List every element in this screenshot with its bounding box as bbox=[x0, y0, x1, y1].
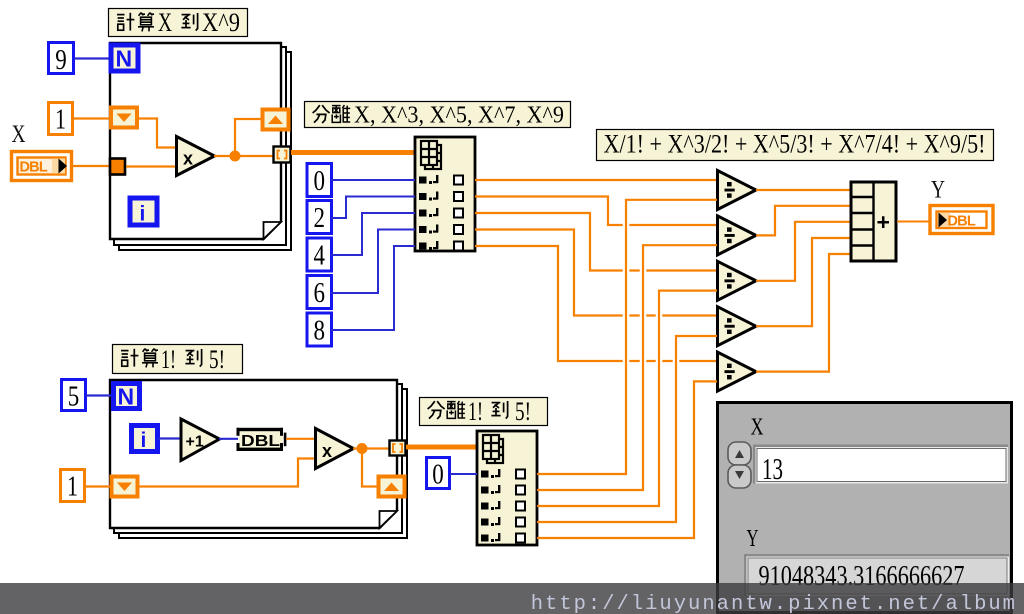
svg-text:0: 0 bbox=[314, 165, 326, 197]
wire i2 to +1 bbox=[158, 437, 181, 439]
svg-text:2: 2 bbox=[314, 202, 326, 234]
wire 9 to N bbox=[74, 57, 110, 59]
wire f-out1 to divide1 lower input bbox=[537, 200, 717, 474]
X numeric control increment buttons bbox=[728, 442, 751, 488]
X numeric control field bbox=[753, 445, 1008, 487]
watermark band bbox=[0, 583, 1024, 614]
svg-text:DBL: DBL bbox=[948, 214, 976, 230]
constant 0 (loop2) bbox=[427, 458, 450, 491]
wire junction up to right shift register bbox=[235, 119, 261, 156]
svg-text:X: X bbox=[158, 8, 172, 37]
wire f-out3 to divide3 lower input bbox=[537, 291, 717, 506]
wire D3 out to adder in3 bbox=[756, 222, 850, 281]
svg-text:9: 9 bbox=[55, 44, 67, 76]
index array 2 body bbox=[477, 431, 537, 545]
wire 1 to shift register bbox=[73, 117, 109, 119]
wire multiply2 out to junction2 bbox=[353, 447, 389, 449]
wire D2 out to adder in2 bbox=[756, 206, 850, 236]
thick array wire to index array 2 bbox=[406, 445, 477, 450]
wire junction2 down to right shift register bbox=[362, 449, 377, 487]
constant 2 bbox=[307, 201, 332, 235]
svg-text:8: 8 bbox=[314, 315, 326, 347]
svg-text:X: X bbox=[12, 121, 26, 148]
svg-text:13: 13 bbox=[762, 451, 783, 486]
shift register left (down arrow) bbox=[111, 108, 137, 128]
svg-text:X: X bbox=[751, 415, 764, 441]
divide node D3 bbox=[718, 261, 757, 300]
constant 0 bbox=[307, 164, 332, 198]
wire 5 to N bbox=[86, 394, 112, 396]
wire out3 to divide3 bbox=[475, 213, 717, 271]
svg-text:1: 1 bbox=[55, 104, 66, 136]
wire out5 to divide5 bbox=[475, 246, 717, 361]
svg-text:N: N bbox=[116, 46, 133, 72]
To-DBL conversion node bbox=[237, 428, 287, 451]
shift register right (up arrow) bbox=[263, 110, 289, 130]
thick array wire to index array 1 bbox=[291, 150, 415, 155]
wire adder to Y indicator bbox=[897, 221, 930, 223]
Y numeric indicator field bbox=[744, 554, 1009, 596]
wire X to tunnel bbox=[72, 165, 109, 167]
Y DBL indicator terminal bbox=[930, 206, 993, 234]
svg-text:http://liuyunantw.pixnet.net/a: http://liuyunantw.pixnet.net/album bbox=[531, 593, 1017, 614]
svg-text:5!: 5! bbox=[515, 397, 531, 426]
wire out2 to divide2 bbox=[475, 197, 717, 226]
svg-text:X/1! + X^3/2! + X^5/3! + X^7/4: X/1! + X^3/2! + X^5/3! + X^7/4! + X^9/5! bbox=[604, 130, 986, 159]
for-loop 2 frame (stacked, with folded corner) bbox=[110, 380, 407, 538]
constant 1 bbox=[49, 103, 73, 136]
svg-text:x: x bbox=[322, 441, 332, 461]
svg-text:0: 0 bbox=[432, 459, 444, 491]
divide node D2 bbox=[718, 216, 757, 255]
wire D4 out to adder in4 bbox=[756, 238, 850, 326]
wire out4 to divide4 bbox=[475, 230, 717, 316]
svg-text:1!: 1! bbox=[468, 397, 483, 426]
iteration terminal i2 bbox=[132, 426, 158, 453]
svg-text:6: 6 bbox=[314, 277, 326, 309]
tunnel (orange square) on loop edge bbox=[110, 159, 125, 175]
constant 6 bbox=[307, 276, 332, 310]
label: 計算X 到X^9 bbox=[109, 8, 248, 37]
array tunnel [] on loop2 right edge bbox=[390, 441, 406, 456]
loop count terminal N2 bbox=[114, 384, 140, 410]
svg-text:i: i bbox=[140, 203, 146, 226]
wire 0 to index 1 bbox=[331, 179, 415, 181]
wire 2 to index 2 bbox=[331, 197, 415, 219]
constant 1 (loop2) bbox=[61, 470, 85, 503]
wire shift register to multiply top input bbox=[137, 119, 176, 148]
svg-text:Y: Y bbox=[747, 526, 759, 552]
svg-text:x: x bbox=[183, 149, 193, 169]
svg-text:Y: Y bbox=[931, 177, 945, 204]
wire f-out5 to divide5 lower input bbox=[537, 381, 717, 538]
divide node D1 bbox=[718, 171, 757, 210]
2D array glyph 2 bbox=[483, 435, 503, 463]
svg-text:DBL: DBL bbox=[20, 160, 48, 176]
multiply node x bbox=[177, 137, 215, 176]
front panel window bbox=[718, 403, 1012, 613]
wire multiply output to junction bbox=[214, 155, 273, 157]
svg-text:4: 4 bbox=[314, 240, 326, 272]
X DBL control terminal bbox=[12, 152, 72, 181]
wire 0 to index array 2 bbox=[450, 473, 477, 475]
constant 8 bbox=[307, 313, 332, 347]
svg-text:+1: +1 bbox=[186, 434, 204, 451]
wire D1 out to adder in1 bbox=[756, 189, 850, 191]
svg-text:1: 1 bbox=[67, 471, 78, 503]
iteration terminal i bbox=[130, 198, 157, 226]
loop count terminal N bbox=[111, 45, 138, 72]
divide node D5 bbox=[718, 352, 757, 391]
shift register left (down arrow) loop2 bbox=[112, 477, 138, 497]
label: 計算1! 到 5! bbox=[113, 345, 243, 375]
svg-text:i: i bbox=[141, 429, 147, 452]
svg-text:5: 5 bbox=[68, 381, 80, 413]
wire shift register to multiply2 bottom input bbox=[138, 459, 315, 487]
constant 5 bbox=[62, 380, 86, 413]
array tunnel [] on loop right edge bbox=[274, 147, 291, 163]
svg-text:5!: 5! bbox=[209, 345, 225, 374]
svg-text:DBL: DBL bbox=[241, 433, 280, 450]
index inputs and element outputs 2 bbox=[481, 469, 525, 543]
wire 4 to index 3 bbox=[331, 213, 415, 255]
wire out1 to divide1 bbox=[475, 179, 717, 181]
wire DBL to multiply2 top input bbox=[286, 438, 315, 440]
multiply node x2 bbox=[316, 429, 354, 469]
wire f-out4 to divide4 lower input bbox=[537, 336, 717, 522]
constant 4 bbox=[307, 238, 332, 272]
divide node D4 bbox=[718, 307, 757, 346]
wire casings (crossing gaps) bbox=[542, 200, 713, 538]
junction dot 2 bbox=[357, 443, 368, 454]
svg-text:X^9: X^9 bbox=[202, 8, 240, 37]
2D array glyph bbox=[421, 141, 441, 169]
wire +1 to DBL conversion bbox=[219, 438, 238, 440]
increment node +1 bbox=[181, 419, 220, 461]
index array 1 body bbox=[415, 137, 475, 251]
shift register right (up arrow) loop2 bbox=[379, 477, 405, 497]
junction dot bbox=[230, 151, 241, 162]
compound arithmetic adder bbox=[851, 182, 896, 261]
label: X/1! + X^3/2! + X^5/3! + X^7/4! + X^9/5! bbox=[597, 130, 994, 161]
svg-text:1!: 1! bbox=[161, 345, 176, 374]
svg-text:N: N bbox=[118, 384, 135, 410]
label: 分離1! 到 5! bbox=[420, 397, 548, 426]
wire tunnel to multiply bottom input bbox=[126, 165, 176, 167]
for-loop 1 frame (stacked, with folded corner) bbox=[110, 43, 291, 250]
wire 8 to index 5 bbox=[331, 246, 415, 330]
wire f-out2 to divide2 lower input bbox=[537, 245, 717, 490]
label: 分離X, X^3, X^5, X^7, X^9 bbox=[305, 102, 571, 129]
wire D5 out to adder in5 bbox=[756, 254, 850, 372]
svg-text:X, X^3, X^5, X^7, X^9: X, X^3, X^5, X^7, X^9 bbox=[354, 103, 564, 129]
constant 9 bbox=[49, 43, 74, 77]
wire 6 to index 4 bbox=[331, 230, 415, 294]
svg-text:+: + bbox=[877, 209, 890, 235]
wire 1 to shift register left bbox=[85, 485, 110, 487]
index inputs and element outputs bbox=[419, 175, 463, 251]
